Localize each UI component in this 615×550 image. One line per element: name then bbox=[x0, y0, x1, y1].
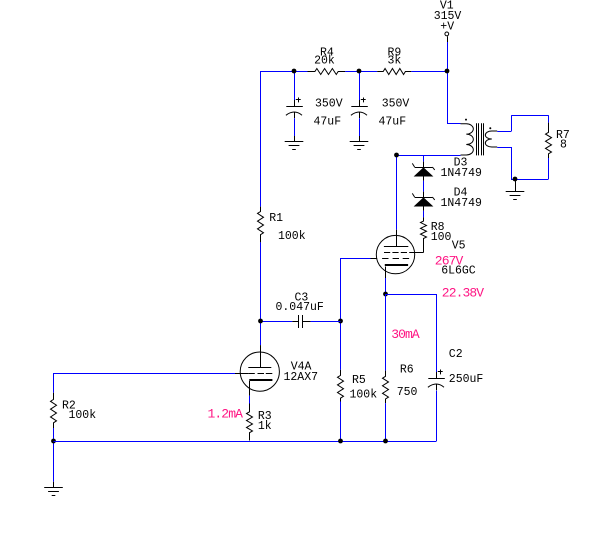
svg-text:100k: 100k bbox=[350, 389, 378, 402]
svg-text:47uF: 47uF bbox=[379, 116, 407, 129]
svg-text:350V: 350V bbox=[315, 98, 343, 111]
svg-text:+V: +V bbox=[440, 20, 454, 33]
svg-text:1k: 1k bbox=[258, 420, 272, 433]
svg-text:R6: R6 bbox=[400, 363, 414, 376]
svg-text:8: 8 bbox=[560, 139, 567, 152]
svg-text:0.047uF: 0.047uF bbox=[276, 301, 324, 314]
svg-text:1N4749: 1N4749 bbox=[441, 167, 483, 180]
svg-text:1N4749: 1N4749 bbox=[441, 197, 483, 210]
svg-text:47uF: 47uF bbox=[314, 116, 342, 129]
svg-text:1.2mA: 1.2mA bbox=[208, 407, 244, 422]
svg-text:V5: V5 bbox=[452, 240, 466, 253]
svg-text:100: 100 bbox=[431, 231, 452, 244]
svg-text:20k: 20k bbox=[314, 54, 335, 67]
svg-text:350V: 350V bbox=[382, 98, 410, 111]
svg-text:30mA: 30mA bbox=[391, 327, 420, 342]
svg-text:267V: 267V bbox=[435, 253, 464, 268]
svg-text:C2: C2 bbox=[449, 348, 463, 361]
svg-text:250uF: 250uF bbox=[449, 373, 484, 386]
svg-text:100k: 100k bbox=[69, 409, 97, 422]
svg-text:22.38V: 22.38V bbox=[442, 286, 485, 301]
svg-text:12AX7: 12AX7 bbox=[284, 371, 319, 384]
svg-text:100k: 100k bbox=[278, 230, 306, 243]
svg-text:R1: R1 bbox=[269, 212, 283, 225]
svg-text:750: 750 bbox=[397, 386, 418, 399]
svg-text:3k: 3k bbox=[388, 54, 402, 67]
svg-text:R5: R5 bbox=[352, 374, 366, 387]
